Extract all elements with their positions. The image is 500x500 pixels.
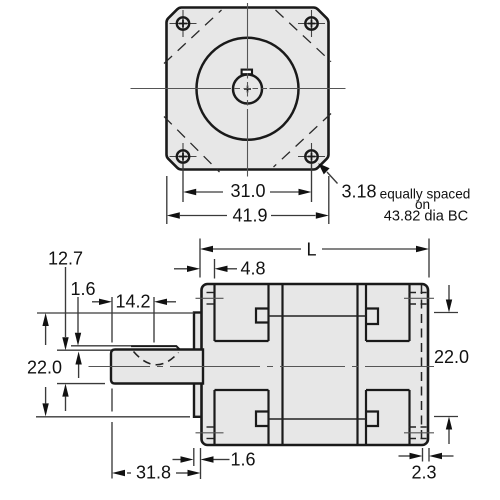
svg-text:4.8: 4.8 [241, 259, 266, 279]
svg-text:41.9: 41.9 [232, 206, 267, 226]
svg-text:L: L [306, 240, 316, 260]
svg-text:31.8: 31.8 [136, 463, 171, 483]
svg-text:14.2: 14.2 [115, 292, 150, 312]
svg-text:1.6: 1.6 [70, 279, 95, 299]
svg-text:31.0: 31.0 [230, 181, 265, 201]
svg-text:1.6: 1.6 [230, 450, 255, 470]
svg-text:22.0: 22.0 [434, 347, 469, 367]
svg-text:12.7: 12.7 [48, 249, 83, 269]
svg-text:43.82 dia BC: 43.82 dia BC [384, 209, 468, 225]
svg-text:22.0: 22.0 [27, 358, 62, 378]
svg-text:2.3: 2.3 [411, 463, 436, 483]
svg-text:3.18: 3.18 [342, 182, 377, 202]
